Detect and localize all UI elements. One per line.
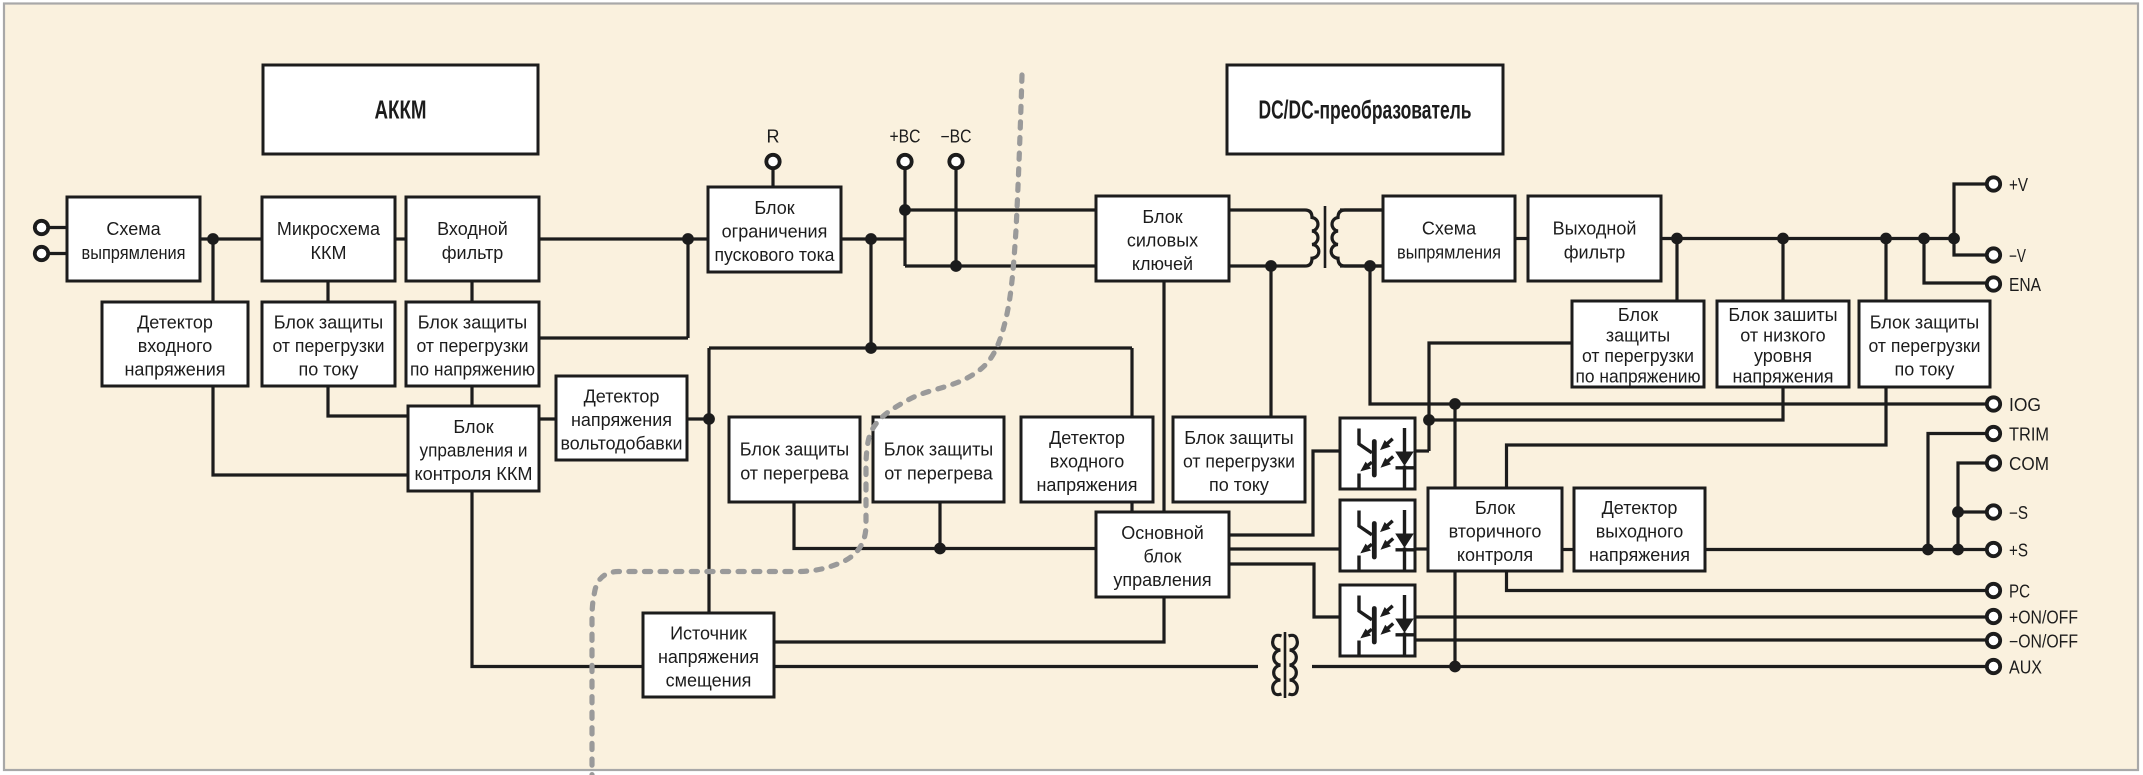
svg-text:напряжения: напряжения	[1589, 545, 1690, 565]
svg-text:Основной: Основной	[1121, 523, 1204, 543]
svg-text:Блок зашиты: Блок зашиты	[1728, 305, 1837, 325]
svg-text:Блок: Блок	[1618, 305, 1658, 325]
svg-text:+BC: +BC	[890, 127, 921, 147]
svg-text:AUX: AUX	[2009, 658, 2042, 678]
svg-text:R: R	[767, 127, 780, 147]
svg-text:Блок защиты: Блок защиты	[740, 440, 850, 460]
svg-text:ККМ: ККМ	[311, 243, 347, 263]
svg-text:от перегрева: от перегрева	[740, 464, 850, 484]
svg-text:смещения: смещения	[666, 671, 752, 691]
svg-text:пускового тока: пускового тока	[715, 245, 836, 265]
svg-text:Схема: Схема	[106, 219, 161, 239]
svg-text:Входной: Входной	[437, 219, 508, 239]
svg-text:контроля ККМ: контроля ККМ	[415, 464, 533, 484]
svg-text:напряжения: напряжения	[658, 647, 759, 667]
svg-text:Выходной: Выходной	[1553, 219, 1637, 239]
svg-text:COM: COM	[2009, 454, 2049, 474]
svg-text:Блок защиты: Блок защиты	[884, 440, 994, 460]
svg-text:PC: PC	[2009, 582, 2030, 602]
svg-text:Блок: Блок	[754, 198, 794, 218]
svg-text:Блок: Блок	[1475, 498, 1515, 518]
svg-text:напряжения: напряжения	[571, 410, 672, 430]
svg-text:АККМ: АККМ	[375, 95, 427, 125]
svg-text:Детектор: Детектор	[584, 387, 660, 407]
svg-text:от перегрузки: от перегрузки	[417, 336, 529, 356]
svg-text:вольтодобавки: вольтодобавки	[561, 434, 683, 454]
svg-text:напряжения: напряжения	[1732, 367, 1833, 387]
svg-text:входного: входного	[1050, 452, 1125, 472]
svg-text:ключей: ключей	[1132, 254, 1193, 274]
svg-text:Блок защиты: Блок защиты	[1870, 313, 1980, 333]
svg-text:−ON/OFF: −ON/OFF	[2009, 632, 2078, 652]
svg-text:управления: управления	[1113, 570, 1211, 590]
svg-text:+ON/OFF: +ON/OFF	[2009, 608, 2078, 628]
svg-text:−V: −V	[2009, 246, 2026, 266]
svg-text:Детектор: Детектор	[1049, 428, 1125, 448]
svg-text:по напряжению: по напряжению	[1576, 367, 1701, 387]
svg-text:TRIM: TRIM	[2009, 425, 2049, 445]
svg-text:Детектор: Детектор	[137, 313, 213, 333]
svg-text:Блок защиты: Блок защиты	[1184, 428, 1294, 448]
svg-text:Схема: Схема	[1422, 219, 1477, 239]
svg-text:от перегрузки: от перегрузки	[1582, 346, 1694, 366]
svg-text:Блок: Блок	[453, 417, 493, 437]
svg-text:силовых: силовых	[1127, 231, 1198, 251]
svg-text:Блок защиты: Блок защиты	[418, 313, 528, 333]
svg-text:управления и: управления и	[420, 441, 528, 461]
svg-text:входного: входного	[138, 336, 213, 356]
svg-text:контроля: контроля	[1457, 545, 1533, 565]
svg-text:Блок защиты: Блок защиты	[274, 313, 384, 333]
svg-text:от перегрузки: от перегрузки	[1183, 452, 1295, 472]
svg-text:−BC: −BC	[941, 127, 972, 147]
svg-text:ограничения: ограничения	[722, 222, 828, 242]
svg-text:фильтр: фильтр	[1564, 243, 1626, 263]
svg-text:защиты: защиты	[1606, 326, 1670, 346]
svg-text:Блок: Блок	[1142, 207, 1182, 227]
svg-text:Источник: Источник	[670, 624, 747, 644]
svg-text:Микросхема: Микросхема	[277, 219, 381, 239]
svg-text:вторичного: вторичного	[1449, 522, 1542, 542]
svg-text:от перегрузки: от перегрузки	[1869, 336, 1981, 356]
svg-text:ENA: ENA	[2009, 275, 2041, 295]
svg-text:от перегрузки: от перегрузки	[273, 336, 385, 356]
svg-text:напряжения: напряжения	[1036, 475, 1137, 495]
svg-text:выпрямления: выпрямления	[1397, 243, 1501, 263]
svg-text:Детектор: Детектор	[1602, 498, 1678, 518]
svg-text:−S: −S	[2009, 503, 2028, 523]
svg-text:по току: по току	[299, 360, 359, 380]
svg-text:выходного: выходного	[1596, 522, 1684, 542]
svg-text:по току: по току	[1209, 475, 1269, 495]
svg-text:по напряжению: по напряжению	[410, 360, 535, 380]
svg-text:от перегрева: от перегрева	[884, 464, 994, 484]
svg-text:+V: +V	[2009, 175, 2028, 195]
svg-text:по току: по току	[1895, 360, 1955, 380]
svg-text:DC/DC-преобразователь: DC/DC-преобразователь	[1259, 95, 1472, 125]
svg-text:напряжения: напряжения	[124, 360, 225, 380]
svg-text:выпрямления: выпрямления	[82, 243, 186, 263]
svg-text:+S: +S	[2009, 541, 2028, 561]
svg-text:IOG: IOG	[2009, 395, 2041, 415]
svg-text:от низкого: от низкого	[1740, 326, 1825, 346]
svg-text:блок: блок	[1143, 547, 1181, 567]
svg-text:уровня: уровня	[1754, 346, 1812, 366]
svg-text:фильтр: фильтр	[442, 243, 504, 263]
